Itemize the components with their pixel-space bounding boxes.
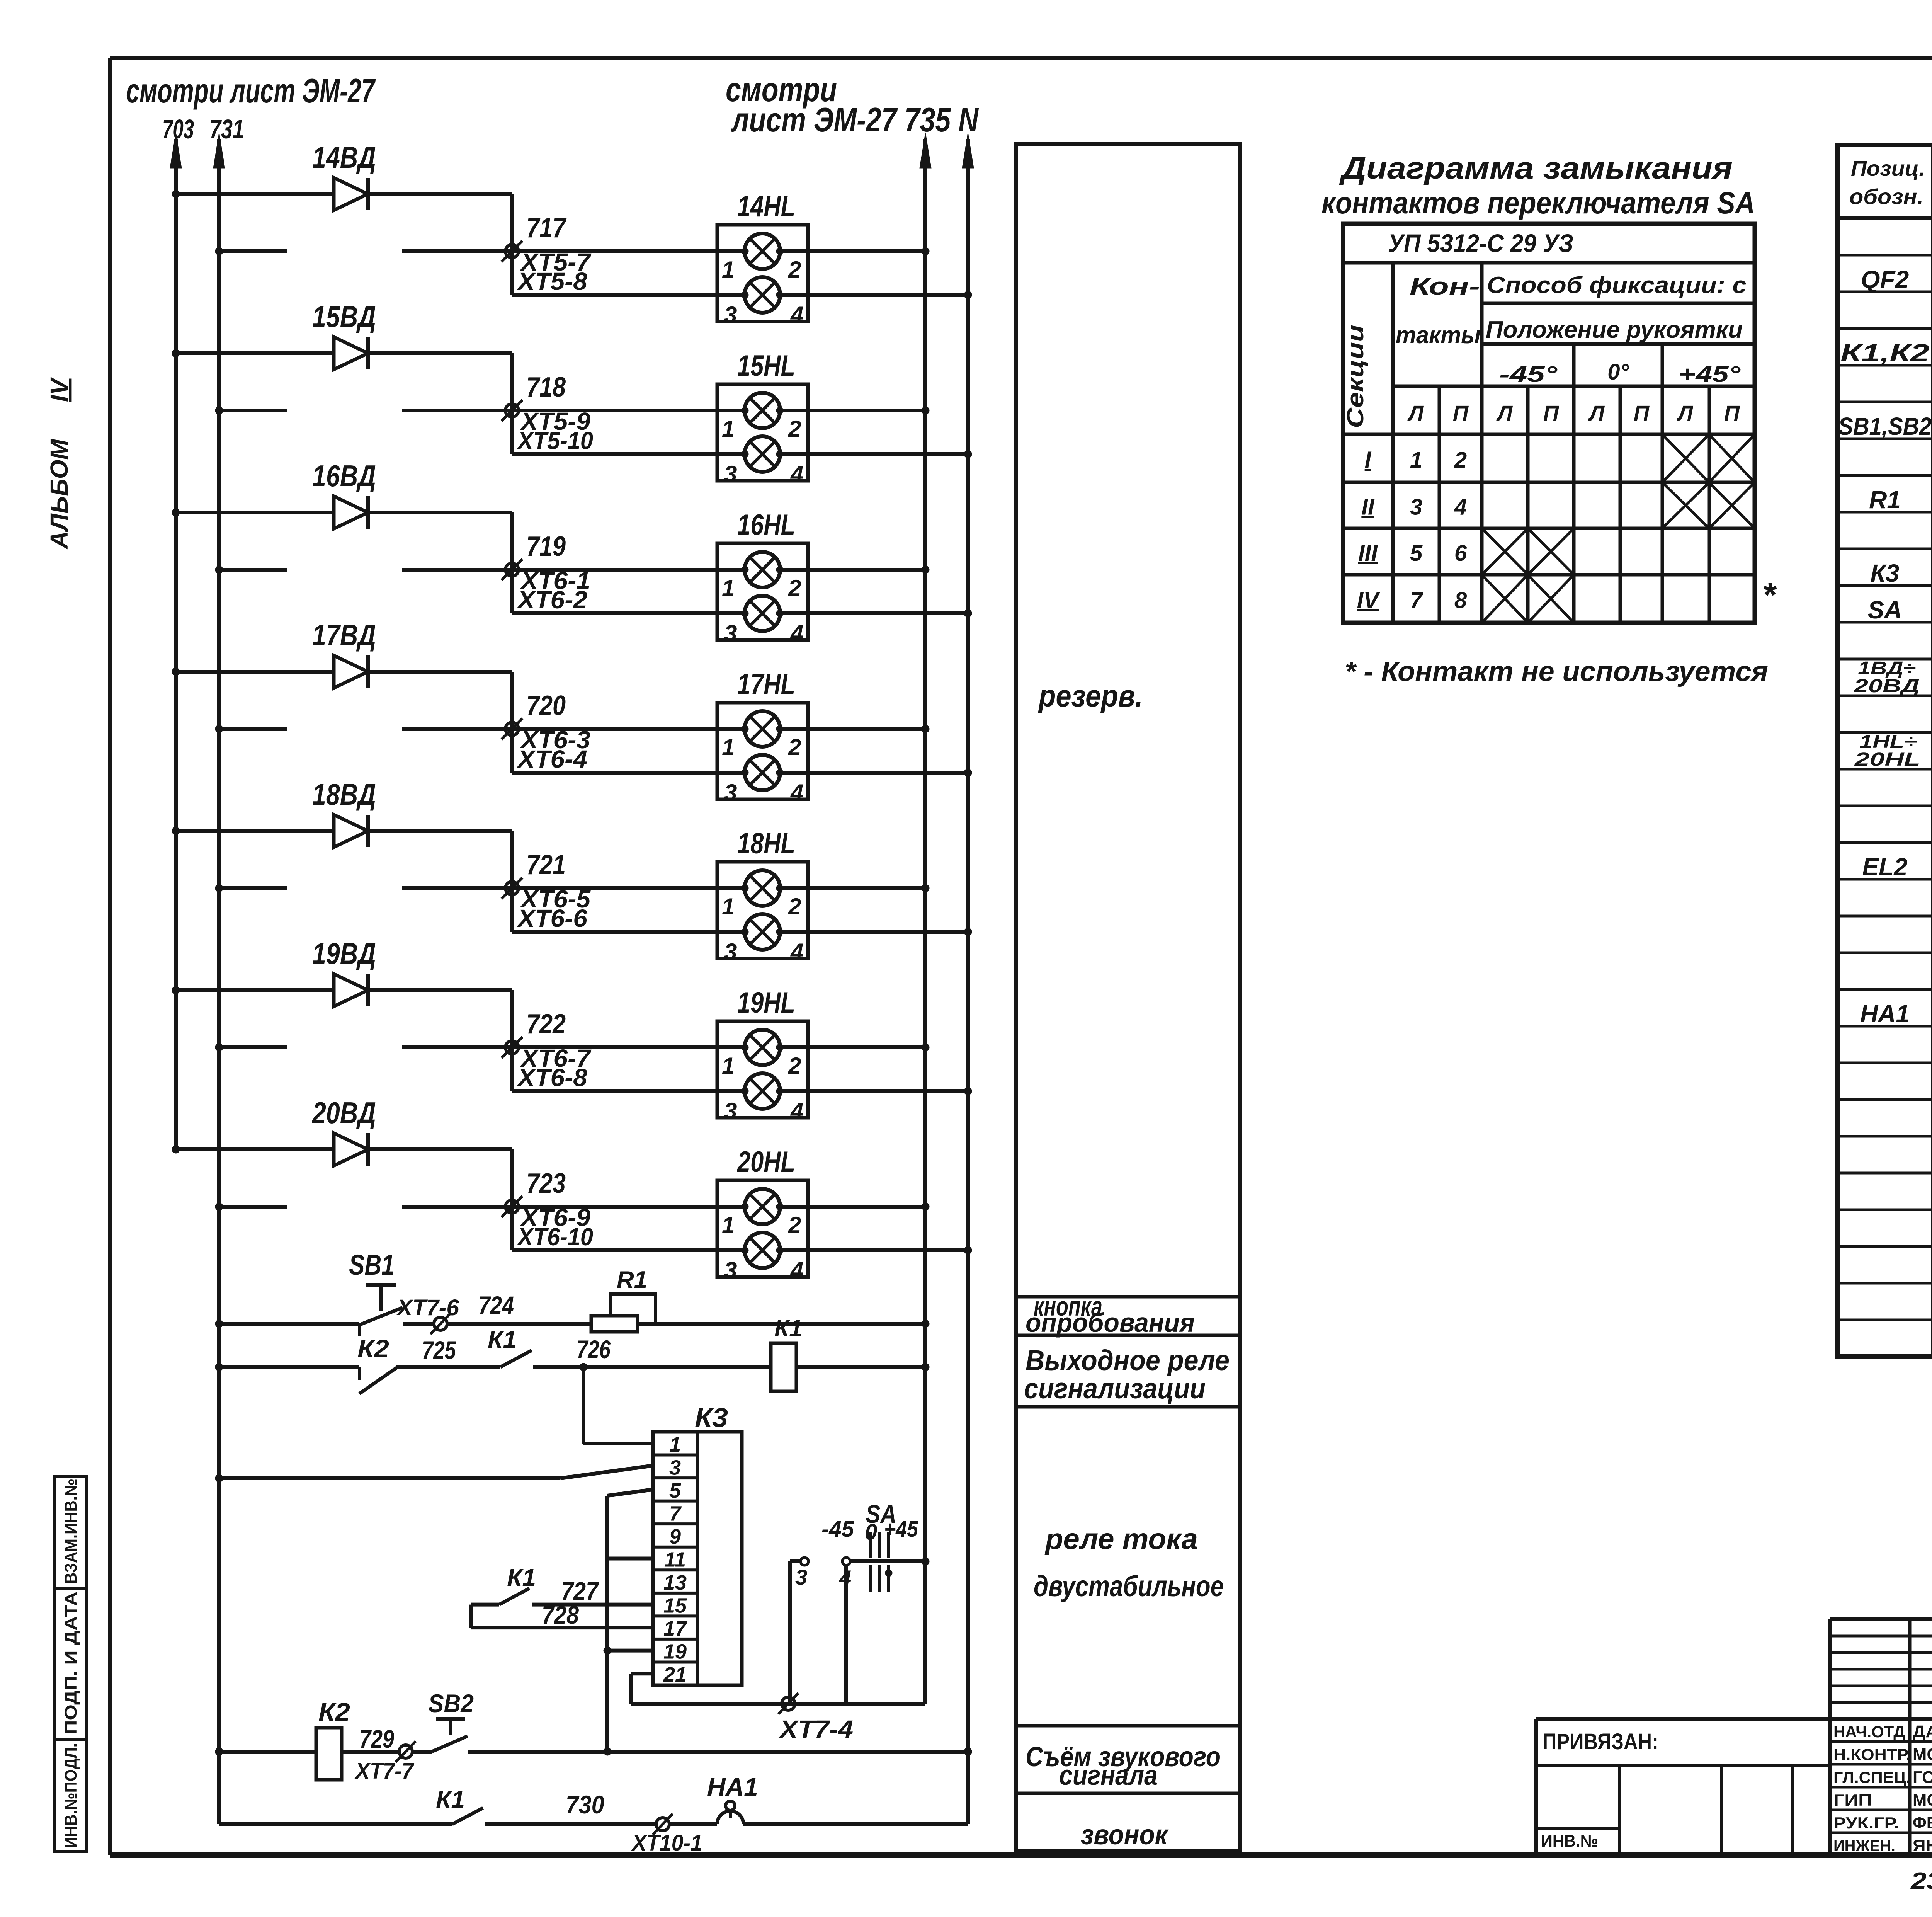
svg-text:719: 719 — [526, 531, 566, 562]
svg-text:4: 4 — [790, 302, 803, 328]
svg-text:EL2: EL2 — [1862, 853, 1907, 881]
svg-text:0: 0 — [865, 1520, 877, 1545]
svg-text:21: 21 — [663, 1663, 687, 1686]
svg-text:3: 3 — [724, 302, 737, 328]
svg-text:14ВД: 14ВД — [312, 140, 376, 174]
svg-text:лист ЭМ-27 735 N: лист ЭМ-27 735 N — [731, 100, 979, 139]
svg-text:ВЗАМ.ИНВ.№: ВЗАМ.ИНВ.№ — [61, 1479, 80, 1584]
svg-text:АЛЬБОМ: АЛЬБОМ — [45, 438, 73, 550]
svg-text:19ВД: 19ВД — [312, 936, 376, 970]
svg-text:4: 4 — [790, 1257, 803, 1283]
svg-text:ХТ6-2: ХТ6-2 — [517, 586, 587, 614]
svg-text:SB1: SB1 — [349, 1249, 395, 1281]
svg-text:4: 4 — [790, 620, 803, 646]
svg-text:1: 1 — [1410, 448, 1422, 473]
svg-text:IV: IV — [1357, 587, 1381, 613]
svg-text:*: * — [1762, 576, 1777, 615]
svg-text:19HL: 19HL — [737, 986, 795, 1019]
svg-text:реле тока: реле тока — [1044, 1523, 1198, 1556]
svg-text:2: 2 — [788, 257, 801, 283]
svg-text:7: 7 — [1410, 588, 1423, 613]
svg-text:721: 721 — [526, 850, 566, 880]
svg-text:Н.КОНТР.: Н.КОНТР. — [1833, 1745, 1911, 1764]
svg-text:15: 15 — [663, 1594, 687, 1617]
svg-text:+45: +45 — [884, 1517, 918, 1542]
svg-text:3: 3 — [724, 620, 737, 646]
svg-text:МОСЕЕНКО: МОСЕЕНКО — [1913, 1791, 1932, 1810]
svg-text:1: 1 — [722, 257, 735, 283]
svg-text:1: 1 — [722, 1212, 735, 1238]
svg-text:ЯНЧЕНКО: ЯНЧЕНКО — [1913, 1836, 1932, 1855]
svg-text:20ВД: 20ВД — [311, 1096, 376, 1130]
svg-text:Л: Л — [1588, 401, 1605, 425]
svg-text:ИНВ.№ПОДЛ.: ИНВ.№ПОДЛ. — [61, 1743, 80, 1848]
svg-text:703: 703 — [162, 114, 194, 144]
svg-text:ХТ6-6: ХТ6-6 — [517, 904, 588, 932]
svg-text:ПОДП. И ДАТА: ПОДП. И ДАТА — [61, 1592, 80, 1735]
svg-text:5: 5 — [669, 1479, 681, 1502]
svg-text:смотри лист ЭМ-27: смотри лист ЭМ-27 — [126, 72, 376, 110]
svg-text:контактов переключателя SA: контактов переключателя SA — [1321, 186, 1755, 220]
svg-text:728: 728 — [542, 1600, 579, 1629]
svg-text:R1: R1 — [1869, 486, 1901, 514]
svg-text:17HL: 17HL — [737, 668, 795, 701]
svg-text:2: 2 — [788, 1212, 801, 1238]
svg-text:П: П — [1634, 401, 1650, 425]
svg-text:+45°: +45° — [1679, 362, 1741, 387]
svg-text:ГЛ.СПЕЦ.: ГЛ.СПЕЦ. — [1833, 1768, 1911, 1786]
svg-text:3: 3 — [795, 1565, 807, 1589]
svg-text:К3: К3 — [695, 1403, 728, 1433]
svg-text:1: 1 — [722, 734, 735, 760]
svg-text:ДАНИЛОВ: ДАНИЛОВ — [1913, 1722, 1932, 1741]
svg-text:ХТ5-10: ХТ5-10 — [517, 427, 593, 455]
svg-text:17: 17 — [663, 1617, 688, 1640]
svg-text:718: 718 — [526, 372, 566, 403]
svg-text:729: 729 — [359, 1725, 394, 1753]
svg-text:К3: К3 — [1871, 559, 1900, 587]
svg-text:3: 3 — [1410, 495, 1422, 520]
svg-text:9: 9 — [669, 1525, 681, 1548]
svg-text:Диаграмма замыкания: Диаграмма замыкания — [1339, 151, 1733, 185]
svg-text:-45°: -45° — [1499, 362, 1558, 387]
svg-text:НА1: НА1 — [1860, 1000, 1910, 1028]
svg-text:3: 3 — [724, 461, 737, 487]
svg-text:ХТ10-1: ХТ10-1 — [631, 1830, 702, 1856]
svg-text:724: 724 — [478, 1291, 514, 1319]
svg-text:4: 4 — [839, 1566, 851, 1590]
svg-text:4: 4 — [790, 461, 803, 487]
svg-text:17ВД: 17ВД — [312, 618, 376, 652]
svg-text:Положение рукоятки: Положение рукоятки — [1486, 317, 1743, 343]
svg-text:SA: SA — [1868, 596, 1902, 624]
svg-text:QF2: QF2 — [1861, 266, 1909, 293]
svg-text:2: 2 — [1454, 448, 1467, 473]
svg-text:13: 13 — [663, 1571, 687, 1594]
svg-text:23141-0 4: 23141-0 4 — [1910, 1868, 1932, 1895]
svg-text:ХТ6-8: ХТ6-8 — [517, 1064, 588, 1091]
svg-text:725: 725 — [422, 1336, 456, 1364]
svg-text:717: 717 — [526, 213, 567, 243]
svg-text:18HL: 18HL — [737, 827, 795, 860]
svg-text:20ВД: 20ВД — [1854, 676, 1920, 696]
svg-text:3: 3 — [724, 939, 737, 965]
svg-text:обозн.: обозн. — [1849, 184, 1923, 209]
svg-text:-45: -45 — [821, 1517, 854, 1542]
svg-text:722: 722 — [526, 1009, 566, 1040]
svg-text:сигнализации: сигнализации — [1024, 1372, 1206, 1405]
svg-text:IV: IV — [45, 376, 73, 402]
svg-text:УП 5312-С 29 УЗ: УП 5312-С 29 УЗ — [1388, 229, 1573, 257]
svg-text:П: П — [1724, 401, 1740, 425]
svg-text:сигнала: сигнала — [1059, 1760, 1158, 1791]
svg-text:К2: К2 — [357, 1334, 389, 1363]
svg-text:ХТ7-4: ХТ7-4 — [779, 1715, 853, 1743]
svg-text:730: 730 — [566, 1790, 604, 1819]
svg-text:III: III — [1358, 540, 1378, 566]
svg-text:6: 6 — [1454, 541, 1467, 566]
svg-text:Способ фиксации: с: Способ фиксации: с — [1487, 272, 1747, 298]
svg-text:1: 1 — [722, 894, 735, 919]
svg-text:К1: К1 — [774, 1315, 803, 1342]
svg-text:ФЕДОРОВА: ФЕДОРОВА — [1913, 1813, 1932, 1832]
svg-text:ХТ7-7: ХТ7-7 — [354, 1759, 414, 1784]
svg-text:15HL: 15HL — [737, 349, 795, 382]
svg-text:3: 3 — [724, 1098, 737, 1124]
svg-text:4: 4 — [790, 780, 803, 805]
svg-text:К1: К1 — [488, 1326, 517, 1353]
svg-text:РУК.ГР.: РУК.ГР. — [1833, 1814, 1899, 1832]
svg-text:К1,К2: К1,К2 — [1840, 339, 1929, 367]
svg-text:3: 3 — [669, 1456, 681, 1479]
svg-text:МОСЕЕНКО: МОСЕЕНКО — [1913, 1745, 1932, 1764]
svg-text:Кон-: Кон- — [1410, 273, 1480, 300]
svg-text:0°: 0° — [1607, 359, 1629, 385]
svg-text:резерв.: резерв. — [1038, 679, 1143, 713]
svg-text:8: 8 — [1454, 588, 1467, 613]
svg-text:П: П — [1453, 401, 1469, 425]
svg-text:НА1: НА1 — [707, 1772, 758, 1801]
svg-text:731: 731 — [209, 114, 244, 144]
svg-text:II: II — [1361, 494, 1375, 520]
svg-text:Выходное реле: Выходное реле — [1026, 1344, 1230, 1376]
svg-text:ХТ6-4: ХТ6-4 — [517, 745, 587, 773]
svg-text:R1: R1 — [617, 1267, 647, 1293]
svg-text:ГОЛЬЦМАН: ГОЛЬЦМАН — [1913, 1768, 1932, 1787]
svg-text:14HL: 14HL — [737, 190, 795, 223]
svg-text:Л: Л — [1407, 401, 1424, 425]
svg-text:ХТ7-6: ХТ7-6 — [396, 1295, 459, 1320]
svg-text:Позиц.: Позиц. — [1851, 156, 1925, 180]
svg-text:* - Контакт не используется: * - Контакт не используется — [1345, 656, 1768, 687]
svg-text:ХТ6-10: ХТ6-10 — [517, 1223, 593, 1251]
svg-text:Л: Л — [1496, 401, 1513, 425]
svg-text:1: 1 — [722, 416, 735, 442]
svg-text:4: 4 — [790, 1098, 803, 1124]
svg-text:4: 4 — [1454, 495, 1467, 520]
svg-text:2: 2 — [788, 416, 801, 442]
svg-text:3: 3 — [724, 780, 737, 805]
svg-text:К2: К2 — [318, 1697, 350, 1726]
svg-text:20HL: 20HL — [736, 1146, 795, 1178]
svg-text:Л: Л — [1677, 401, 1694, 425]
svg-text:726: 726 — [577, 1335, 611, 1364]
svg-text:5: 5 — [1410, 541, 1423, 566]
svg-text:16ВД: 16ВД — [312, 459, 376, 493]
svg-text:ХТ5-8: ХТ5-8 — [517, 267, 588, 295]
svg-text:I: I — [1365, 447, 1372, 473]
svg-text:П: П — [1543, 401, 1560, 425]
svg-text:Секции: Секции — [1342, 325, 1368, 428]
svg-text:16HL: 16HL — [737, 509, 795, 541]
svg-text:2: 2 — [788, 894, 801, 919]
svg-text:720: 720 — [526, 690, 566, 721]
svg-text:723: 723 — [526, 1168, 566, 1199]
svg-text:ИНЖЕН.: ИНЖЕН. — [1833, 1837, 1895, 1855]
svg-text:1: 1 — [722, 575, 735, 601]
svg-text:2: 2 — [788, 575, 801, 601]
svg-text:ПРИВЯЗАН:: ПРИВЯЗАН: — [1543, 1729, 1658, 1754]
svg-text:двустабильное: двустабильное — [1034, 1570, 1224, 1603]
svg-text:ГИП: ГИП — [1833, 1791, 1872, 1809]
svg-text:7: 7 — [669, 1502, 682, 1525]
svg-text:1: 1 — [669, 1433, 681, 1456]
svg-text:НАЧ.ОТД: НАЧ.ОТД — [1833, 1723, 1905, 1741]
svg-text:15ВД: 15ВД — [312, 300, 376, 334]
svg-text:ИНВ.№: ИНВ.№ — [1541, 1832, 1598, 1851]
svg-text:2: 2 — [788, 1053, 801, 1079]
svg-text:2: 2 — [788, 734, 801, 760]
svg-text:1: 1 — [722, 1053, 735, 1079]
svg-text:такты: такты — [1396, 322, 1481, 349]
svg-text:К1: К1 — [507, 1564, 536, 1592]
svg-text:К1: К1 — [436, 1786, 465, 1813]
svg-text:SB1,SB2: SB1,SB2 — [1838, 412, 1932, 440]
svg-text:18ВД: 18ВД — [312, 777, 376, 811]
svg-text:20HL: 20HL — [1854, 749, 1920, 770]
svg-text:11: 11 — [664, 1548, 686, 1571]
svg-text:SB2: SB2 — [428, 1689, 474, 1718]
svg-text:звонок: звонок — [1081, 1820, 1169, 1851]
svg-text:опробования: опробования — [1026, 1308, 1195, 1338]
svg-text:3: 3 — [724, 1257, 737, 1283]
svg-text:19: 19 — [663, 1640, 687, 1663]
svg-text:4: 4 — [790, 939, 803, 965]
